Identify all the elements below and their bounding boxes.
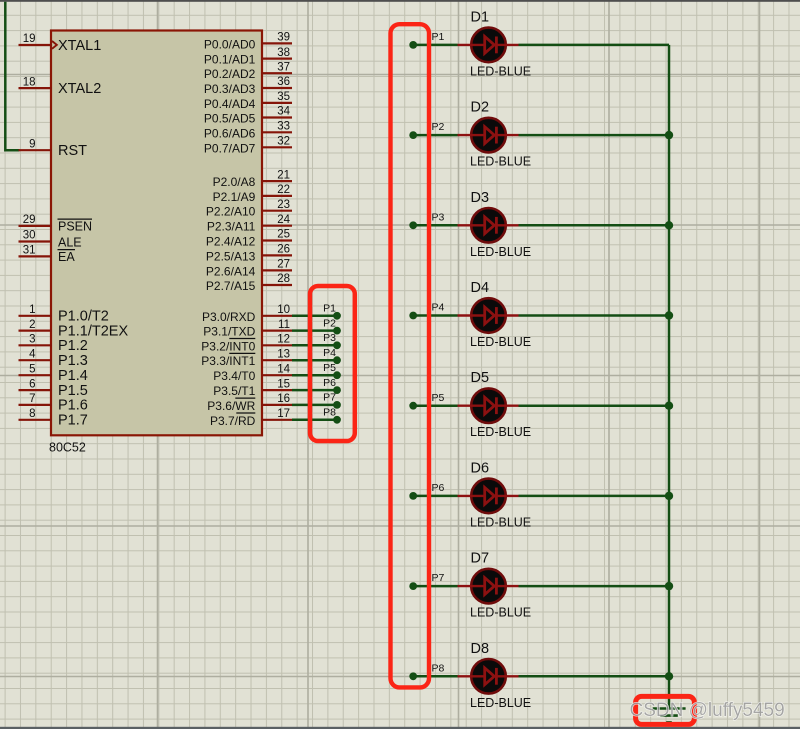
LED D7 <box>458 569 519 604</box>
LED D6 <box>458 479 519 514</box>
LED D8 <box>458 659 519 694</box>
svg-text:1: 1 <box>29 304 35 316</box>
wire: P5 terminal to LED D5 anode <box>413 404 457 407</box>
svg-text:D4: D4 <box>471 280 490 296</box>
svg-text:P3: P3 <box>432 211 445 223</box>
svg-text:RST: RST <box>58 143 87 159</box>
svg-text:P0.3/AD3: P0.3/AD3 <box>204 82 256 96</box>
svg-text:P1.7: P1.7 <box>58 413 88 429</box>
LED D4 <box>458 298 519 333</box>
svg-text:23: 23 <box>277 199 290 211</box>
svg-text:LED-BLUE: LED-BLUE <box>470 606 531 620</box>
LED D5 <box>458 388 519 423</box>
svg-text:P2.3/A11: P2.3/A11 <box>207 220 256 234</box>
pin 3 stub <box>19 344 53 346</box>
svg-text:P0.0/AD0: P0.0/AD0 <box>204 37 256 51</box>
svg-text:LED-BLUE: LED-BLUE <box>470 155 531 169</box>
svg-text:D8: D8 <box>471 641 490 657</box>
svg-text:P3: P3 <box>323 332 336 344</box>
pin 21 stub <box>261 180 292 182</box>
svg-text:P4: P4 <box>432 302 445 314</box>
pin 1 stub <box>19 315 53 317</box>
svg-text:37: 37 <box>277 61 290 73</box>
wire: cathode bus vertical <box>668 45 671 708</box>
svg-text:80C52: 80C52 <box>49 441 86 455</box>
svg-text:P2.6/A14: P2.6/A14 <box>206 264 256 278</box>
pin 32 stub <box>261 146 292 148</box>
pin 13 stub <box>261 359 292 361</box>
LED D3 <box>458 208 519 243</box>
wire: pin 16 to net P7 terminal <box>292 404 337 407</box>
svg-text:P2.1/A9: P2.1/A9 <box>213 190 256 204</box>
svg-text:28: 28 <box>277 273 290 285</box>
wire: P6 terminal to LED D6 anode <box>413 495 457 498</box>
svg-text:P0.5/AD5: P0.5/AD5 <box>204 112 256 126</box>
svg-text:P2.0/A8: P2.0/A8 <box>213 175 256 189</box>
node: net P1 terminal dot (LED side) <box>409 41 417 49</box>
pin 31 stub <box>19 255 53 257</box>
LED D1 <box>458 28 519 63</box>
pin 8 stub <box>19 419 53 421</box>
svg-text:P1.6: P1.6 <box>58 398 88 414</box>
svg-text:P3.6/WR: P3.6/WR <box>207 399 255 413</box>
wire: pin 10 to net P1 terminal <box>292 315 337 318</box>
overline for EA <box>58 249 76 251</box>
wire: LED D8 cathode to bus <box>519 675 670 678</box>
svg-text:D3: D3 <box>471 190 490 206</box>
wire: pin 12 to net P3 terminal <box>292 344 337 347</box>
ground symbol <box>653 709 686 723</box>
pin 28 stub <box>261 284 292 286</box>
svg-text:XTAL2: XTAL2 <box>58 81 101 97</box>
svg-text:LED-BLUE: LED-BLUE <box>470 64 531 78</box>
pin 10 stub <box>261 315 292 317</box>
pin 15 stub <box>261 389 292 391</box>
svg-text:P1.2: P1.2 <box>58 338 88 354</box>
pin 17 stub <box>261 419 292 421</box>
svg-text:31: 31 <box>23 245 36 257</box>
pin 37 stub <box>261 72 292 74</box>
svg-text:P2: P2 <box>432 121 445 133</box>
pin 25 stub <box>261 239 292 241</box>
overline for P3.7/RD <box>236 412 255 414</box>
svg-text:D1: D1 <box>471 9 490 25</box>
svg-text:2: 2 <box>29 319 35 331</box>
svg-text:P2.4/A12: P2.4/A12 <box>206 235 256 249</box>
wire: LED D1 cathode to bus <box>519 44 670 47</box>
svg-text:D6: D6 <box>471 460 490 476</box>
svg-text:P7: P7 <box>432 572 445 584</box>
node: net P6 terminal dot <box>333 386 341 394</box>
svg-text:LED-BLUE: LED-BLUE <box>470 696 531 710</box>
node: net P7 terminal dot <box>333 401 341 409</box>
pin 2 stub <box>19 330 53 332</box>
svg-text:34: 34 <box>277 106 290 118</box>
overline for P3.2/INT0 <box>229 338 255 340</box>
svg-text:P3.4/T0: P3.4/T0 <box>213 369 255 383</box>
overline for P3.3/INT1 <box>229 352 255 354</box>
svg-text:P3.1/TXD: P3.1/TXD <box>203 325 255 339</box>
pin 4 stub <box>19 359 53 361</box>
pin 33 stub <box>261 131 292 133</box>
pin 19 stub <box>19 44 53 46</box>
pin 22 stub <box>261 195 292 197</box>
node: net P7 terminal dot (LED side) <box>409 582 417 590</box>
svg-text:30: 30 <box>23 230 36 242</box>
svg-text:27: 27 <box>277 259 290 271</box>
svg-text:P1: P1 <box>432 31 445 43</box>
svg-text:P6: P6 <box>432 482 445 494</box>
svg-text:P1.1/T2EX: P1.1/T2EX <box>58 323 128 339</box>
svg-text:P0.1/AD1: P0.1/AD1 <box>204 53 256 67</box>
svg-text:4: 4 <box>29 348 36 360</box>
pin 24 stub <box>261 225 292 227</box>
svg-text:24: 24 <box>277 214 290 226</box>
pin 11 stub <box>261 330 292 332</box>
svg-text:29: 29 <box>23 214 36 226</box>
wire: P1 terminal to LED D1 anode <box>413 44 457 47</box>
pin 30 stub <box>19 240 53 242</box>
svg-text:LED-BLUE: LED-BLUE <box>470 335 531 349</box>
svg-text:ALE: ALE <box>58 235 82 249</box>
svg-text:P2: P2 <box>323 317 336 329</box>
node: net P4 terminal dot (LED side) <box>409 312 417 320</box>
svg-text:22: 22 <box>277 184 290 196</box>
junction dot on bus at D6 row <box>665 492 673 500</box>
svg-text:P7: P7 <box>323 392 336 404</box>
pin 39 stub <box>261 42 292 44</box>
wire: LED D2 cathode to bus <box>519 134 670 137</box>
pin 36 stub <box>261 87 292 89</box>
junction dot on bus at D8 row <box>665 672 673 680</box>
svg-text:16: 16 <box>277 393 290 405</box>
svg-text:14: 14 <box>277 363 290 375</box>
svg-text:D2: D2 <box>471 100 490 116</box>
svg-text:10: 10 <box>277 304 290 316</box>
wire: LED D3 cathode to bus <box>519 224 670 227</box>
svg-text:LED-BLUE: LED-BLUE <box>470 425 531 439</box>
node: net P2 terminal dot <box>333 327 341 335</box>
svg-text:19: 19 <box>23 33 36 45</box>
svg-text:EA: EA <box>58 250 75 264</box>
wire: pin 15 to net P6 terminal <box>292 389 337 392</box>
svg-text:15: 15 <box>277 378 290 390</box>
svg-text:P1.3: P1.3 <box>58 353 88 369</box>
wire: pin 17 to net P8 terminal <box>292 419 337 422</box>
svg-text:PSEN: PSEN <box>58 220 92 234</box>
svg-text:P2.2/A10: P2.2/A10 <box>206 205 256 219</box>
svg-text:P5: P5 <box>323 362 336 374</box>
wire: LED D7 cathode to bus <box>519 585 670 588</box>
node: net P5 terminal dot <box>333 371 341 379</box>
svg-text:32: 32 <box>277 136 290 148</box>
svg-text:8: 8 <box>29 408 35 420</box>
pin 12 stub <box>261 344 292 346</box>
pin 35 stub <box>261 102 292 104</box>
pin 9 stub <box>19 149 53 151</box>
pin 26 stub <box>261 254 292 256</box>
node: net P4 terminal dot <box>333 356 341 364</box>
annotation: red highlight box around LED-side terminals <box>391 24 430 687</box>
pin 16 stub <box>261 404 292 406</box>
svg-text:P3.3/INT1: P3.3/INT1 <box>201 354 255 368</box>
svg-text:7: 7 <box>29 393 35 405</box>
annotation: red highlight box around ground <box>636 696 695 724</box>
svg-text:P0.7/AD7: P0.7/AD7 <box>204 141 256 155</box>
svg-text:21: 21 <box>277 169 290 181</box>
node: net P8 terminal dot <box>333 416 341 424</box>
svg-text:12: 12 <box>277 334 290 346</box>
svg-text:LED-BLUE: LED-BLUE <box>470 245 531 259</box>
svg-text:3: 3 <box>29 334 35 346</box>
svg-text:P0.4/AD4: P0.4/AD4 <box>204 97 256 111</box>
svg-text:36: 36 <box>277 76 290 88</box>
pin 38 stub <box>261 57 292 59</box>
wire: P4 terminal to LED D4 anode <box>413 314 457 317</box>
wire: LED D5 cathode to bus <box>519 404 670 407</box>
svg-text:P2.5/A13: P2.5/A13 <box>206 249 256 263</box>
svg-text:33: 33 <box>277 121 290 133</box>
wire: left vertical net to RST <box>5 2 19 150</box>
pin 34 stub <box>261 116 292 118</box>
overline for PSEN <box>58 218 93 220</box>
svg-text:26: 26 <box>277 244 290 256</box>
annotation: red highlight box around P1-P8 net terminals <box>310 286 355 441</box>
svg-text:P8: P8 <box>432 662 445 674</box>
svg-text:P1: P1 <box>323 303 336 315</box>
svg-text:25: 25 <box>277 229 290 241</box>
LED D2 <box>458 118 519 153</box>
svg-text:38: 38 <box>277 47 290 59</box>
svg-text:P1.4: P1.4 <box>58 368 88 384</box>
node: net P3 terminal dot <box>333 341 341 349</box>
svg-text:18: 18 <box>23 76 36 88</box>
overline for P3.6/WR <box>235 397 255 399</box>
svg-text:D5: D5 <box>471 370 490 386</box>
pin 7 stub <box>19 404 53 406</box>
junction dot on bus at D5 row <box>665 402 673 410</box>
svg-text:35: 35 <box>277 91 290 103</box>
svg-text:P3.0/RXD: P3.0/RXD <box>202 310 256 324</box>
junction dot on bus at D3 row <box>665 221 673 229</box>
pin 18 stub <box>19 87 53 89</box>
node: net P5 terminal dot (LED side) <box>409 402 417 410</box>
pin 23 stub <box>261 210 292 212</box>
svg-text:XTAL1: XTAL1 <box>58 38 101 54</box>
svg-text:CSDN @luffy5459: CSDN @luffy5459 <box>630 700 785 721</box>
svg-text:39: 39 <box>277 32 290 44</box>
XTAL1 clock chevron <box>52 41 57 49</box>
wire: P7 terminal to LED D7 anode <box>413 585 457 588</box>
node: net P3 terminal dot (LED side) <box>409 221 417 229</box>
svg-text:P1.5: P1.5 <box>58 383 88 399</box>
wire: P3 terminal to LED D3 anode <box>413 224 457 227</box>
svg-text:P0.2/AD2: P0.2/AD2 <box>204 67 256 81</box>
junction dot on bus at D4 row <box>665 311 673 319</box>
node: net P6 terminal dot (LED side) <box>409 492 417 500</box>
svg-text:P0.6/AD6: P0.6/AD6 <box>204 126 256 140</box>
svg-text:P1.0/T2: P1.0/T2 <box>58 309 109 325</box>
svg-text:D7: D7 <box>471 551 490 567</box>
wire: pin 13 to net P4 terminal <box>292 359 337 362</box>
svg-text:P4: P4 <box>323 347 336 359</box>
wire: P8 terminal to LED D8 anode <box>413 675 457 678</box>
svg-text:LED-BLUE: LED-BLUE <box>470 515 531 529</box>
svg-text:9: 9 <box>29 138 35 150</box>
chip U1 80C52 body <box>51 31 262 436</box>
node: net P2 terminal dot (LED side) <box>409 131 417 139</box>
node: net P8 terminal dot (LED side) <box>409 672 417 680</box>
svg-text:5: 5 <box>29 363 35 375</box>
svg-text:P2.7/A15: P2.7/A15 <box>206 279 256 293</box>
svg-text:11: 11 <box>278 319 290 331</box>
pin 5 stub <box>19 374 53 376</box>
svg-text:P5: P5 <box>432 392 445 404</box>
pin 27 stub <box>261 269 292 271</box>
pin 29 stub <box>19 225 53 227</box>
svg-text:17: 17 <box>277 408 290 420</box>
junction dot on bus at D7 row <box>665 582 673 590</box>
svg-text:P3.5/T1: P3.5/T1 <box>213 384 255 398</box>
svg-text:P6: P6 <box>323 377 336 389</box>
svg-text:P8: P8 <box>323 407 336 419</box>
junction dot on bus at D2 row <box>665 131 673 139</box>
svg-text:6: 6 <box>29 378 35 390</box>
svg-text:13: 13 <box>277 348 290 360</box>
node: net P1 terminal dot <box>333 312 341 320</box>
wire: P2 terminal to LED D2 anode <box>413 134 457 137</box>
wire: pin 14 to net P5 terminal <box>292 374 337 377</box>
wire: pin 11 to net P2 terminal <box>292 329 337 332</box>
pin 14 stub <box>261 374 292 376</box>
svg-text:P3.2/INT0: P3.2/INT0 <box>201 339 255 353</box>
pin 6 stub <box>19 389 53 391</box>
wire: LED D4 cathode to bus <box>519 314 670 317</box>
svg-text:P3.7/RD: P3.7/RD <box>210 414 256 428</box>
wire: LED D6 cathode to bus <box>519 495 670 498</box>
